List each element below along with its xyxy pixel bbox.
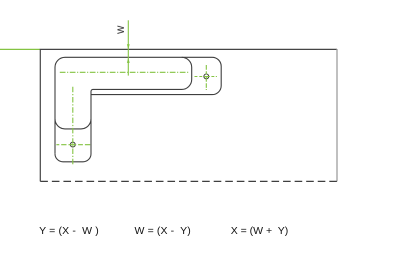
panel outline rectangle: left and top solid edges — [40, 49, 337, 181]
vertical arm centerline — [72, 87, 74, 165]
green reference line at left edge — [0, 48, 40, 50]
formula W = (X - Y) — [135, 225, 191, 237]
formula X = (W + Y) — [231, 225, 289, 237]
dimension W down arrowhead — [127, 44, 130, 49]
panel outline rectangle: right edge — [336, 49, 338, 181]
hole H2 horizontal crosshair — [56, 144, 90, 146]
svg-text:X = (W + Y): X = (W + Y) — [231, 225, 289, 237]
hole H1 vertical crosshair — [205, 65, 207, 90]
L-slot outline: left edge, top-left radius, top edge, right pad right side — [55, 57, 221, 153]
svg-text:W = (X - Y): W = (X - Y) — [135, 225, 191, 237]
dimension label W (rotated) — [116, 25, 126, 34]
hole H2 (bottom pad) — [70, 142, 75, 147]
horizontal arm centerline — [60, 71, 189, 73]
dimension W up arrowhead — [127, 58, 130, 63]
svg-text:Y = (X - W ): Y = (X - W ) — [39, 225, 99, 237]
hole H1 horizontal crosshair — [195, 76, 217, 78]
L-slot vertical arm rounded inner end cap — [55, 119, 91, 129]
formula Y = (X - W) — [39, 225, 99, 237]
svg-text:W: W — [116, 25, 126, 34]
panel outline rectangle: dashed bottom edge — [40, 180, 337, 182]
dimension W leader line — [127, 20, 129, 75]
L-slot outline: bottom pad, vertical right edge, inner corner, arm bottom edge and rounded arm end cap — [55, 57, 192, 162]
hole H1 (right pad) — [204, 74, 209, 79]
